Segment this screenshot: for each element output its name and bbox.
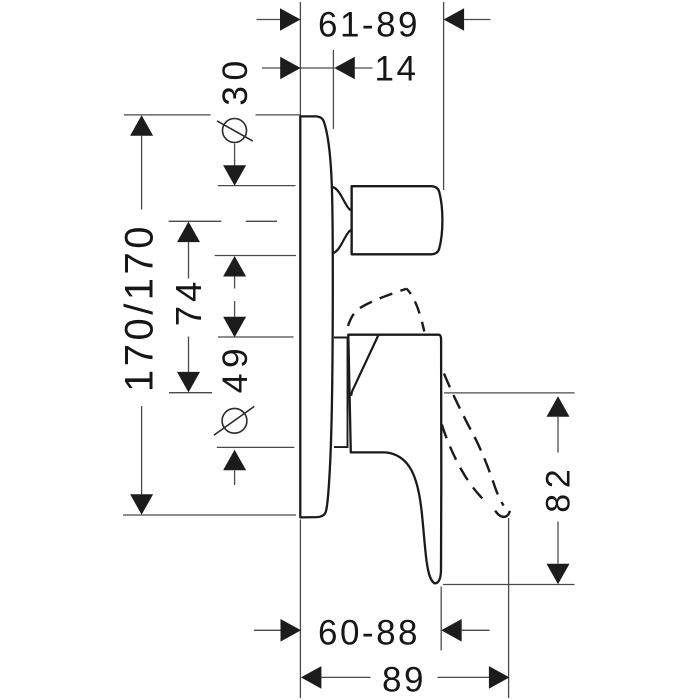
extension line plate-front (x=333) for dim 14 [332,50,334,129]
extension line sleeve top (y=337) [218,336,294,338]
dashed lever raised position: inner contour [442,425,489,504]
dimension 82 line [547,396,570,584]
knob stem bottom contour [332,230,352,254]
svg-text:170/170: 170/170 [118,223,162,392]
dashed lever raised position: outer contour [444,374,504,506]
centerline knob axis (y=221) [169,220,277,222]
extension line plate bottom (y=515) [123,514,296,516]
extension line plate-back bottom [299,520,301,699]
extension line lever-tip [440,587,442,651]
svg-text:89: 89 [382,661,426,700]
dashed lever raised position: tip cap [495,511,510,517]
dimension Ø30 symbol [217,119,253,143]
dimension 14 text [375,50,419,89]
wall plate outline (side view) [300,116,333,517]
dimension 61-89 text [318,5,420,44]
dimension 82 text [539,464,577,513]
extension line sleeve bottom (y=447.4) [217,446,294,448]
dimension Ø49 symbol [214,406,254,435]
extension line plate top (y=115) [124,114,300,116]
dimension Ø30 text [215,55,255,106]
extension line lever tip right (y=584.5) [443,584,575,586]
extension line knob top (y=185.6) [218,185,296,187]
dimension 89 line [301,666,510,689]
dimension 74 text [168,278,209,327]
dimension 74 line [177,222,200,393]
centerline lever axis (y=393) [169,392,212,394]
dimension 14 line [262,57,373,80]
extension line lever axis right (y=392.9) [444,392,575,394]
dashed lever raised position: upper-left arc [348,289,407,326]
dimension Ø30 line [223,144,246,289]
knob face line [351,186,353,254]
knob stem top contour [332,187,352,211]
svg-text:14: 14 [375,50,419,89]
lever top diagonal edge [351,336,378,396]
extension line dashed-lever-tip [508,518,510,698]
svg-text:82: 82 [539,464,577,513]
dimension 170/170 text [118,223,162,392]
dimension 89 text [382,661,426,700]
dimension 60-88 text [318,613,420,652]
dimension 60-88 line [254,619,490,642]
extension line plate-back top (x=300) [299,2,301,115]
dimension Ø49 line [223,301,246,485]
svg-text:74: 74 [168,278,209,327]
dimension 170/170 line [130,115,153,515]
dashed lever raised position: descent to hub corner [407,289,425,332]
escutcheon sleeve [334,338,348,448]
svg-text:61-89: 61-89 [318,5,420,44]
svg-text:30: 30 [215,55,255,106]
knob outline [352,186,443,254]
extension line knob bottom (y=255.5) [215,255,296,257]
extension line knob-right (x=443) [443,2,445,190]
lever hub and blade outline [348,335,441,584]
dimension Ø49 text [215,343,255,394]
svg-text:49: 49 [215,343,255,394]
svg-text:60-88: 60-88 [318,613,420,652]
dimension 61-89 line [257,8,491,31]
